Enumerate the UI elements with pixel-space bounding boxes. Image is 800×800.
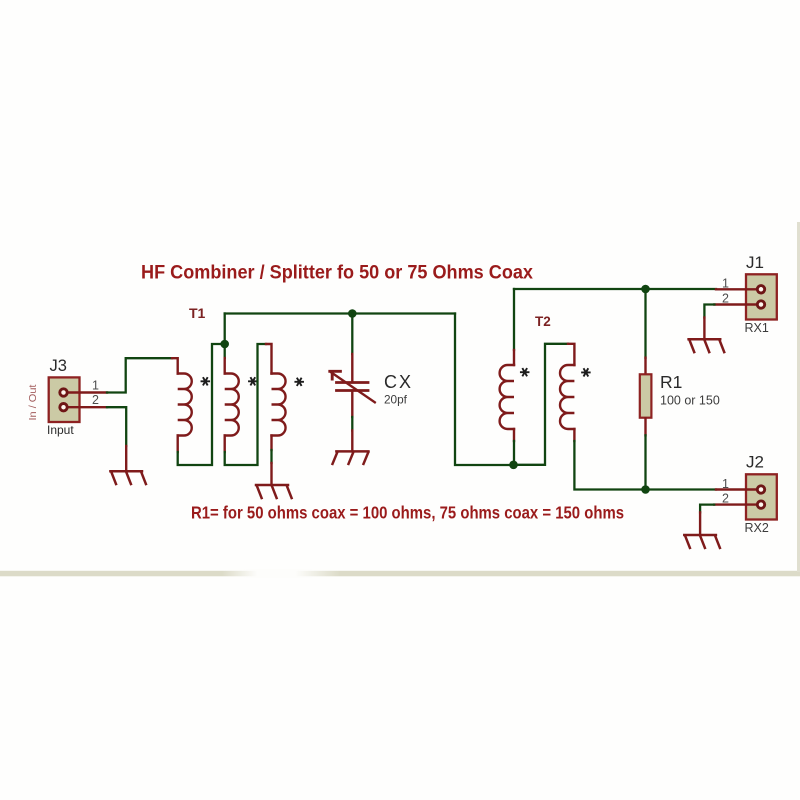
junction node CX top [348,309,357,318]
svg-text:T2: T2 [535,314,551,329]
wire winding B bottom loop to winding C top [225,344,266,465]
asterisk (T2 L) [521,369,529,376]
wire top bus T1 [225,312,455,314]
ground lead (T1 C) [270,463,272,485]
pin circle J1-2 [757,301,764,308]
wire T2 top bus [514,288,716,290]
T1 winding C coil [272,374,286,436]
wire R1 top [644,289,646,358]
R1 bottom lead [644,419,646,436]
svg-text:2: 2 [92,393,99,407]
scan right edge band [797,222,800,572]
pin circle J3-2 [60,404,67,411]
ground symbol (J2) [684,535,720,548]
wire winding C to ground [270,450,272,463]
asterisk (T1 B) [249,378,257,385]
ground lead (J1) [703,318,705,340]
junction node T1 [220,340,229,349]
svg-text:2: 2 [722,291,729,305]
svg-text:RX2: RX2 [745,521,769,535]
wire net pin2 down to ground [107,407,126,446]
junction node T2 [509,461,518,470]
T1 winding A bottom lead [176,436,178,453]
wire junction drop [224,314,226,345]
svg-text:RX1: RX1 [745,321,769,335]
junction node R1 bottom [641,485,650,494]
T1 winding A top lead [172,358,178,373]
ground lead (J3) [125,446,127,471]
T1 winding B bottom lead [223,436,225,453]
wire junction to right winding top [514,344,569,465]
scan bottom edge band [0,571,800,577]
T2 right winding coil [560,365,574,429]
connector J3 box [49,377,80,422]
pin J1-1 stub [716,288,758,290]
pin J1-2 stub [714,303,758,305]
svg-text:Input: Input [47,423,74,437]
junction node R1 top [641,285,650,294]
T2 left winding coil [500,365,514,429]
svg-text:J1: J1 [746,253,764,272]
pin J2-1 stub [716,488,758,490]
CX bottom lead [351,391,353,418]
wire J2 pin2 to ground [700,505,714,513]
CX top lead [351,354,353,382]
svg-text:HF Combiner / Splitter fo 50 o: HF Combiner / Splitter fo 50 or 75 Ohms … [141,262,533,284]
svg-text:R1= for 50 ohms coax = 100 ohm: R1= for 50 ohms coax = 100 ohms, 75 ohms… [191,502,624,522]
asterisk (T2 R) [582,369,590,376]
T2 left winding bottom lead [513,429,515,441]
pin circle J2-2 [757,501,764,508]
pin circle J1-1 [757,286,764,293]
ground symbol (CX) mirrored [333,451,369,464]
svg-text:In / Out: In / Out [28,384,39,420]
pin circle J3-1 [60,389,67,396]
svg-text:J3: J3 [50,357,67,375]
T1 winding B top lead [224,344,226,358]
T1 winding A coil [178,374,192,436]
connector J2 box [746,474,777,519]
ground symbol (T1 C) [256,485,292,498]
T1 winding C top lead [266,344,272,374]
wire CX top [351,314,353,355]
svg-text:CX: CX [384,372,411,392]
wire right winding to J2 bus [574,441,716,490]
pin circle J2-1 [757,486,764,493]
svg-text:T1: T1 [189,305,206,321]
svg-text:100 or 150: 100 or 150 [660,394,720,408]
svg-text:20pf: 20pf [384,393,408,407]
svg-text:R1: R1 [660,372,682,392]
ground lead (J2) [699,512,701,535]
wire R1 bottom [644,435,646,489]
svg-text:1: 1 [92,379,99,393]
wire net IN pin1 to T1 winding A top [107,358,172,392]
wire winding A bottom loop to junction [178,344,225,465]
T1 winding C bottom lead [270,436,272,451]
resistor R1 body [640,374,652,417]
wire J1 pin2 to ground [704,305,714,318]
pin J3-1 stub [66,391,107,393]
ground lead (CX) [351,431,353,452]
wire CX to ground [351,417,353,431]
T2 left winding top lead [513,350,515,365]
CX arrow [332,373,375,403]
T2 right winding bottom lead [573,429,575,441]
wire top bus T1 down to T2 bottom bus [455,314,514,466]
connector J1 box [746,274,777,319]
T1 winding B coil [225,374,239,436]
T2 right winding top lead [568,344,574,365]
R1 top lead [644,358,646,374]
pin J2-2 stub [714,503,758,505]
asterisk (T1 A) [202,378,210,385]
wire T2 left winding top [513,289,515,350]
pin J3-2 stub [66,406,107,408]
svg-text:J2: J2 [746,453,764,472]
ground symbol (J1) [689,339,725,352]
asterisk (T1 C) [295,379,303,386]
ground symbol (J3) [110,471,145,484]
wire into junction [513,441,515,465]
CX plates [337,383,369,391]
